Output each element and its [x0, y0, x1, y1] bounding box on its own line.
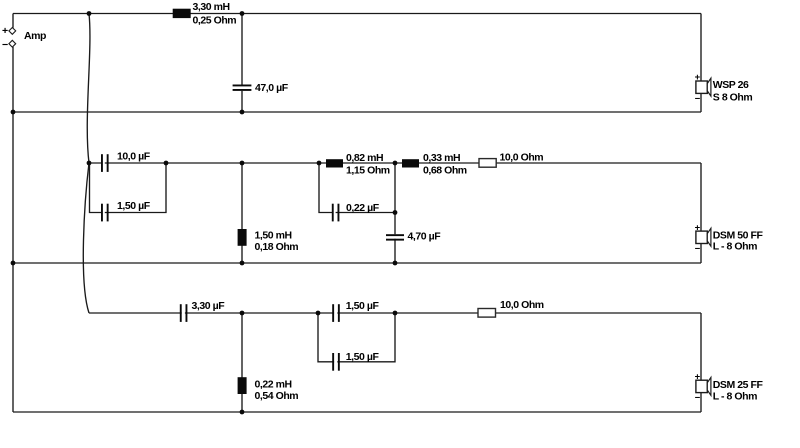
label speaker 1 - [695, 94, 701, 105]
svg-text:+: + [695, 222, 701, 233]
capacitor 3,30 uF [180, 304, 188, 322]
wire parallel loop 10,0/1,50 uF [90, 163, 167, 213]
svg-text:L - 8 Ohm: L - 8 Ohm [713, 391, 757, 403]
svg-text:DSM 50 FF: DSM 50 FF [713, 229, 764, 241]
value label 4,70 uF [408, 230, 442, 242]
value label 10,0 Ohm section 3 [500, 299, 544, 311]
svg-text:Amp: Amp [24, 30, 46, 42]
svg-text:WSP 26: WSP 26 [713, 79, 749, 91]
value label 0,68 Ohm [423, 165, 467, 177]
svg-text:1,15 Ohm: 1,15 Ohm [346, 165, 390, 177]
value label 0,82 mH [346, 152, 383, 164]
node mid rail 0,82 mH left [317, 161, 322, 166]
inductor 0,82 mH [326, 159, 343, 167]
node bottom rail 1 left [11, 110, 16, 115]
resistor 10,0 Ohm section 2 [479, 159, 496, 168]
value label 1,50 uF top [346, 300, 380, 312]
node mid rail 0,33 mH left [393, 161, 398, 166]
value label DSM 50 FF [713, 229, 764, 241]
capacitor 1,50 uF parallel lower [332, 353, 340, 371]
wire shunt branch 1,50 mH [241, 163, 243, 263]
value label 3,30 mH [193, 1, 230, 13]
node bottom rail 2 at 242 [240, 261, 245, 266]
value label 0,22 uF [346, 202, 380, 214]
value label 10,0 uF [117, 151, 151, 163]
wire shunt branch 0,22 mH [241, 313, 243, 412]
node low rail 0,22 mH tap [240, 311, 245, 316]
svg-text:−: − [695, 244, 701, 255]
value label 1,15 Ohm [346, 165, 390, 177]
amp - terminal [9, 40, 16, 47]
wire bottom rail section 1 [13, 111, 701, 113]
svg-text:1,50 µF: 1,50 µF [117, 200, 151, 212]
svg-text:−: − [2, 39, 8, 51]
label amp + [2, 25, 8, 37]
wire top rail section 3 [89, 312, 701, 314]
value label 0,25 Ohm [193, 14, 237, 26]
wire curved branch top to mid [87, 14, 90, 164]
wire bottom rail section 2 [13, 262, 701, 264]
svg-text:0,82 mH: 0,82 mH [346, 152, 383, 164]
node top junction curve [87, 11, 92, 16]
svg-text:1,50 µF: 1,50 µF [346, 351, 380, 363]
svg-text:+: + [695, 72, 701, 83]
value label DSM 25 FF [713, 379, 764, 391]
svg-text:−: − [695, 94, 701, 105]
svg-text:4,70 µF: 4,70 µF [408, 230, 442, 242]
svg-text:0,22 mH: 0,22 mH [255, 379, 292, 391]
label speaker 3 - [695, 393, 701, 404]
svg-text:L - 8 Ohm: L - 8 Ohm [713, 241, 757, 253]
wire parallel loop 1,50/1,50 uF [318, 313, 395, 362]
speaker DSM 50 FF [696, 228, 711, 246]
inductor 1,50 mH [238, 229, 247, 246]
svg-text:1,50 mH: 1,50 mH [255, 230, 292, 242]
wire parallel loop 0,22 uF [319, 163, 395, 213]
svg-text:−: − [695, 393, 701, 404]
node bottom rail 1 47uF [240, 110, 245, 115]
resistor 10,0 Ohm section 3 [478, 309, 496, 318]
label amp - [2, 39, 8, 51]
value label 0,33 mH [423, 152, 460, 164]
wire bottom rail section 3 [13, 411, 701, 413]
value label S 8 Ohm [713, 92, 753, 104]
label speaker 1 + [695, 72, 701, 83]
value label 47,0 uF [255, 82, 289, 94]
svg-text:0,33 mH: 0,33 mH [423, 152, 460, 164]
svg-text:3,30 mH: 3,30 mH [193, 1, 230, 13]
node 0,22uF loop right [393, 210, 398, 215]
value label 0,22 mH [255, 379, 292, 391]
svg-text:0,18 Ohm: 0,18 Ohm [255, 241, 299, 253]
node top 47uF tap [240, 11, 245, 16]
svg-text:1,50 µF: 1,50 µF [346, 300, 380, 312]
svg-text:10,0 Ohm: 10,0 Ohm [500, 299, 544, 311]
value label L - 8 Ohm section 2 [713, 241, 757, 253]
wire curved branch mid to bottom [83, 163, 89, 313]
value label 1,50 mH [255, 230, 292, 242]
node bottom rail 3 at 242 [240, 410, 245, 415]
value label 3,30 uF [192, 300, 226, 312]
capacitor 1,50 uF parallel [101, 204, 109, 222]
node mid rail after 10uF [164, 161, 169, 166]
value label 10,0 Ohm section 2 [500, 152, 544, 164]
node low rail 1,50uF pair left [316, 311, 321, 316]
wire shunt branch 4,70 uF [394, 163, 396, 263]
capacitor 1,50 uF series top [332, 304, 340, 322]
svg-text:0,54 Ohm: 0,54 Ohm [255, 390, 299, 402]
node mid rail 1,50 mH tap [240, 161, 245, 166]
node bottom rail 2 at 395 [393, 261, 398, 266]
svg-text:47,0 µF: 47,0 µF [255, 82, 289, 94]
svg-text:0,22 µF: 0,22 µF [346, 202, 380, 214]
svg-text:+: + [2, 25, 8, 37]
inductor 3,30 mH [173, 9, 191, 18]
node mid rail curve junction [87, 161, 92, 166]
inductor 0,33 mH [402, 159, 419, 167]
wire right drop section 2 [700, 163, 702, 263]
svg-text:DSM 25 FF: DSM 25 FF [713, 379, 764, 391]
svg-text:+: + [695, 371, 701, 382]
svg-text:3,30 µF: 3,30 µF [192, 300, 226, 312]
label speaker 3 + [695, 371, 701, 382]
inductor 0,22 mH [238, 377, 247, 394]
wire shunt branch 47,0 uF [241, 14, 243, 113]
node bottom rail 2 left [11, 261, 16, 266]
svg-text:0,25 Ohm: 0,25 Ohm [193, 14, 237, 26]
label speaker 2 + [695, 222, 701, 233]
wire right drop section 3 [700, 313, 702, 412]
wire left rail from - terminal to bottom [12, 47, 14, 412]
capacitor 47,0 uF [233, 85, 252, 91]
svg-text:S 8 Ohm: S 8 Ohm [713, 92, 753, 104]
label Amp [24, 30, 46, 42]
value label 1,50 uF lower [346, 351, 380, 363]
capacitor 10,0 uF [101, 154, 109, 172]
value label 0,18 Ohm [255, 241, 299, 253]
value label 0,54 Ohm [255, 390, 299, 402]
capacitor 0,22 uF [332, 204, 340, 222]
value label 1,50 uF [117, 200, 151, 212]
speaker DSM 25 FF [696, 377, 711, 395]
node low rail pair right [393, 311, 398, 316]
value label WSP 26 [713, 79, 749, 91]
wire top rail section 2 [89, 162, 701, 164]
svg-text:10,0 µF: 10,0 µF [117, 151, 151, 163]
wire amp + stub [12, 14, 14, 28]
capacitor 4,70 uF [386, 234, 404, 240]
speaker WSP 26 [696, 78, 711, 96]
svg-text:10,0 Ohm: 10,0 Ohm [500, 152, 544, 164]
svg-text:0,68 Ohm: 0,68 Ohm [423, 165, 467, 177]
amp + terminal [9, 28, 16, 35]
wire top rail section 1 [13, 13, 701, 15]
wire right drop section 1 [700, 14, 702, 113]
label speaker 2 - [695, 244, 701, 255]
value label L - 8 Ohm section 3 [713, 391, 757, 403]
